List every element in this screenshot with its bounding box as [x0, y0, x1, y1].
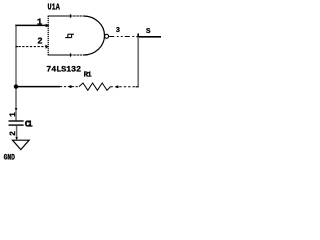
svg-text:1: 1 [9, 112, 18, 117]
svg-text:U1A: U1A [48, 3, 60, 13]
svg-text:1: 1 [37, 18, 43, 28]
svg-text:2: 2 [37, 37, 42, 47]
svg-text:3: 3 [116, 27, 120, 35]
svg-text:74LS132: 74LS132 [46, 65, 81, 75]
svg-text:2: 2 [9, 131, 18, 136]
svg-text:R1: R1 [84, 72, 93, 80]
svg-text:S: S [146, 28, 151, 36]
svg-text:GND: GND [4, 154, 16, 163]
